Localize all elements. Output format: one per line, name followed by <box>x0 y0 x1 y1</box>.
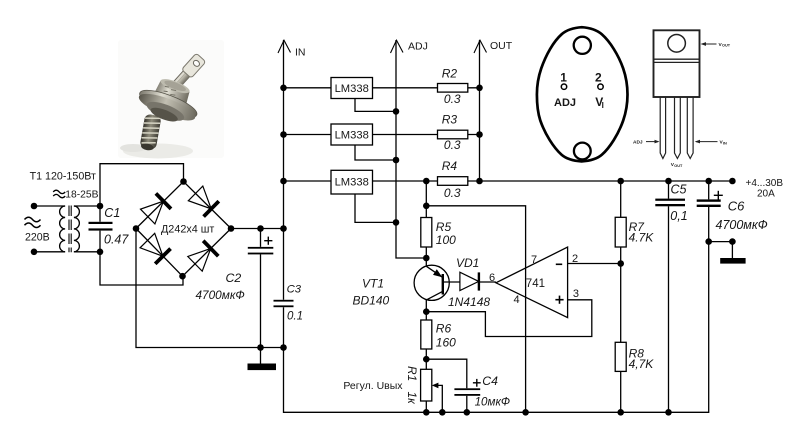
svg-text:20А: 20А <box>757 189 775 200</box>
svg-text:Регул. Uвых: Регул. Uвых <box>343 380 403 392</box>
svg-text:3: 3 <box>573 288 579 300</box>
svg-text:100: 100 <box>436 233 456 247</box>
svg-text:R2: R2 <box>442 67 458 81</box>
svg-text:6: 6 <box>489 272 495 284</box>
svg-text:7: 7 <box>531 254 537 266</box>
svg-text:LM338: LM338 <box>335 83 369 95</box>
svg-text:ADJ: ADJ <box>633 139 643 145</box>
svg-text:0.47: 0.47 <box>104 232 129 246</box>
svg-text:1: 1 <box>560 70 567 84</box>
svg-text:C6: C6 <box>728 198 745 213</box>
svg-text:10мкФ: 10мкФ <box>475 395 511 408</box>
svg-text:2: 2 <box>595 70 602 84</box>
svg-text:ADJ: ADJ <box>554 97 576 109</box>
svg-text:LM338: LM338 <box>335 177 369 189</box>
svg-text:Т1 120-150Вт: Т1 120-150Вт <box>30 171 96 183</box>
svg-text:LM338: LM338 <box>335 129 369 141</box>
svg-text:VT1: VT1 <box>362 276 384 290</box>
svg-text:OUT: OUT <box>674 164 683 168</box>
svg-text:0.3: 0.3 <box>444 92 461 106</box>
svg-text:C2: C2 <box>226 271 242 285</box>
svg-text:1N4148: 1N4148 <box>448 295 490 309</box>
svg-text:I: I <box>602 101 604 110</box>
svg-text:ADJ: ADJ <box>408 40 428 52</box>
svg-text:+4...30В: +4...30В <box>746 178 784 189</box>
svg-text:R1: R1 <box>405 366 419 381</box>
svg-text:VD1: VD1 <box>456 256 479 270</box>
svg-text:OUT: OUT <box>722 44 731 48</box>
svg-text:IN: IN <box>723 141 727 145</box>
svg-text:160: 160 <box>436 336 456 350</box>
svg-text:0,1: 0,1 <box>670 209 687 223</box>
svg-text:R6: R6 <box>436 322 452 336</box>
svg-text:4: 4 <box>514 294 520 306</box>
svg-text:BD140: BD140 <box>353 294 390 308</box>
svg-text:C5: C5 <box>671 182 687 196</box>
svg-text:R3: R3 <box>442 113 458 127</box>
svg-text:0.1: 0.1 <box>287 310 303 322</box>
svg-text:4.7K: 4.7K <box>629 231 655 245</box>
svg-text:1к: 1к <box>405 392 419 406</box>
svg-text:4,7K: 4,7K <box>629 357 655 371</box>
svg-text:Д242х4 шт: Д242х4 шт <box>161 223 214 235</box>
svg-text:741: 741 <box>526 278 545 290</box>
svg-text:0.3: 0.3 <box>444 138 461 152</box>
svg-text:C4: C4 <box>482 374 498 388</box>
svg-text:OUT: OUT <box>490 40 513 52</box>
svg-text:IN: IN <box>295 47 306 59</box>
svg-text:0.3: 0.3 <box>444 186 461 200</box>
svg-text:C3: C3 <box>287 284 302 296</box>
svg-text:220В: 220В <box>25 231 50 243</box>
svg-text:4700мкФ: 4700мкФ <box>716 218 768 232</box>
svg-text:R4: R4 <box>442 159 458 173</box>
svg-text:2: 2 <box>572 253 578 265</box>
svg-text:4700мкФ: 4700мкФ <box>196 288 245 302</box>
svg-text:C1: C1 <box>104 206 120 220</box>
svg-text:18-25В: 18-25В <box>65 190 98 201</box>
